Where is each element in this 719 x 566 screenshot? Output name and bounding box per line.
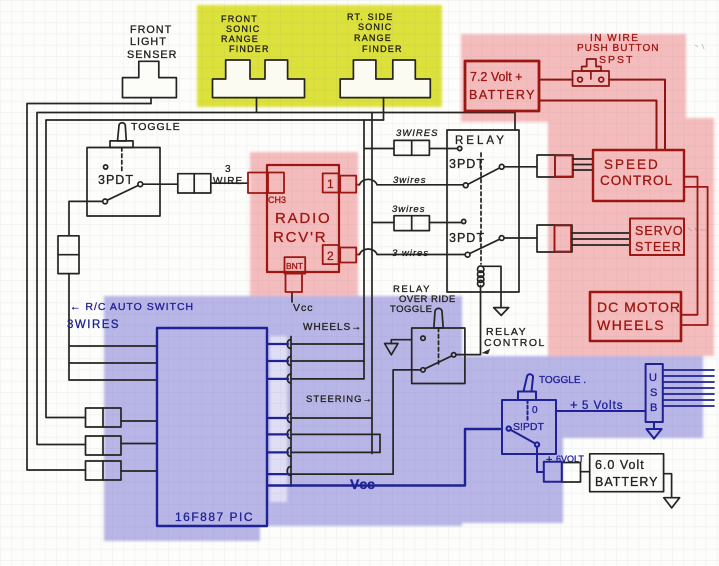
radio out 1 box: [323, 173, 339, 192]
connector box bottom-left 2: [86, 436, 122, 455]
svg-text:Vcc: Vcc: [350, 476, 375, 492]
servo steer box: [630, 219, 684, 256]
svg-text:FRONT: FRONT: [221, 14, 258, 24]
radio BNT box: [285, 257, 306, 274]
ground right of battery: [664, 498, 680, 508]
svg-text:STEER: STEER: [635, 240, 682, 254]
blue labels: [67, 301, 657, 524]
connector red cell (speed): [555, 156, 573, 177]
relay sw1 arm: [468, 168, 499, 184]
svg-text:6VOLT: 6VOLT: [556, 454, 584, 464]
wire 3PDT lower contact to resistor chain: [69, 201, 103, 235]
wire pin7 riser to toggle: [267, 370, 421, 474]
rt side sonic range finder body: [340, 60, 430, 98]
svg-text:FINDER: FINDER: [229, 44, 270, 54]
blue highlight: bottom-left lip: [104, 520, 260, 541]
svg-text:RANGE: RANGE: [354, 33, 392, 43]
7.2 volt battery box: [465, 61, 539, 111]
SPDT to 6V wire connector to battery: [581, 471, 590, 473]
wire sw1 to speed connector: [504, 166, 537, 168]
svg-text:CONTROL: CONTROL: [484, 337, 546, 349]
6V connector box: [544, 462, 562, 482]
svg-text:WIRE: WIRE: [213, 176, 243, 187]
svg-text:Vcc: Vcc: [293, 302, 314, 314]
pink highlight: radio receiver: [250, 152, 358, 296]
push button plunger: [573, 59, 610, 86]
label front sonic range finder: [221, 12, 403, 54]
svg-text:S: S: [650, 387, 657, 399]
svg-text:FINDER: FINDER: [362, 44, 403, 54]
pin loop bumps: [287, 340, 291, 476]
dashed actuator: [438, 328, 440, 364]
relay coil top wire to ground branch: [482, 266, 501, 307]
relay coil: [478, 266, 484, 272]
wire SPDT bottom to 6V connector: [537, 447, 544, 472]
contact right: [452, 353, 456, 357]
connector box bottom-left 1: [86, 408, 122, 427]
relay sw1 contact left: [463, 183, 468, 188]
svg-text:SERVO: SERVO: [635, 224, 684, 238]
resistor (vertical 2-cell): [58, 236, 79, 274]
svg-text:SPST: SPST: [599, 54, 634, 66]
wire sonic1 drop: [256, 98, 258, 113]
switch arm: [107, 186, 138, 201]
contact top-left: [421, 336, 425, 340]
wire push button to speed control: [609, 80, 665, 150]
3 wires connector to servo: [572, 233, 630, 245]
wire toggle to ground: [391, 340, 411, 344]
toggle arm: [425, 356, 451, 369]
wire sonic2 drop: [383, 98, 385, 120]
blue highlight: main PIC area: [104, 296, 462, 526]
ground below relay: [494, 308, 509, 316]
USB ground wire: [653, 422, 655, 429]
wires PIC steering pins: [291, 418, 380, 452]
svg-text:S!PDT: S!PDT: [513, 421, 545, 433]
toggle base: [110, 141, 133, 148]
svg-text:SONIC: SONIC: [226, 24, 261, 34]
toggle switch 3PDT (left) box: [87, 148, 160, 217]
dashed actuator line: [121, 148, 123, 173]
relay sw1 contact right: [499, 164, 504, 169]
contact end circle: [458, 146, 462, 150]
SPDT toggle lever: [524, 374, 534, 391]
svg-text:SONIC: SONIC: [358, 22, 393, 32]
white gap in highlighter right of PIC: [270, 336, 287, 502]
USB cable lines: [663, 370, 714, 406]
relay sw2 contact right: [499, 236, 504, 241]
relay sw2 arm: [470, 239, 499, 253]
toggle lever: [434, 308, 443, 328]
push button terminals: [578, 77, 583, 82]
ground left of toggle: [385, 344, 398, 355]
wires PIC wheels pins: [291, 344, 364, 379]
3wires connector mid 2: [394, 216, 429, 231]
toggle lever: [118, 123, 127, 141]
wire connector to radio: [211, 182, 248, 184]
contact lower left: [103, 199, 108, 204]
3 wires connector to speed control: [573, 159, 593, 170]
wire light sensor drop: [150, 98, 152, 104]
contact end circle: [462, 219, 466, 223]
svg-text:3WIRES: 3WIRES: [396, 128, 438, 139]
svg-text:DC MOTOR: DC MOTOR: [597, 299, 681, 315]
svg-text:TOGGLE: TOGGLE: [390, 304, 432, 315]
svg-text:STEERING→: STEERING→: [306, 394, 373, 405]
red labels: [268, 33, 684, 333]
blue highlight: SPDT / USB band: [453, 356, 563, 458]
relay box: [447, 130, 519, 292]
16F887 PIC box: [157, 328, 267, 526]
SPDT contact bottom: [535, 442, 539, 446]
pin harness vertical: [290, 337, 292, 487]
connector after 3PDT: [178, 174, 211, 193]
pink highlight: speed control / servo / dc motor: [548, 118, 714, 356]
svg-text:3: 3: [225, 164, 232, 175]
Vcc wire: [267, 429, 500, 486]
6.0 volt battery box: [590, 454, 664, 492]
svg-text:PUSH BUTTON: PUSH BUTTON: [577, 43, 660, 54]
svg-text:BATTERY: BATTERY: [595, 475, 659, 489]
svg-text:BNT: BNT: [286, 261, 303, 271]
contact right: [138, 182, 143, 187]
wire bus C (rt sonic): [46, 120, 384, 418]
svg-text:16F887 PIC: 16F887 PIC: [175, 510, 254, 524]
connector at speed control: [537, 155, 573, 177]
dc motor wheels box: [590, 292, 681, 341]
radio out 1 connector: [340, 176, 356, 193]
svg-text:CH3: CH3: [268, 195, 286, 205]
svg-text:RCV'R: RCV'R: [273, 229, 327, 246]
connector box bottom-left 3: [86, 461, 122, 480]
front sonic range finder body: [213, 60, 305, 98]
SPDT toggle box: [502, 400, 556, 454]
svg-text:WHEELS→: WHEELS→: [303, 322, 362, 333]
SPDT toggle base: [518, 392, 536, 401]
svg-text:TOGGLE: TOGGLE: [131, 121, 181, 133]
push button body: [573, 71, 610, 86]
radio out 2 connector: [340, 248, 356, 263]
wire BNT vcc stub: [291, 292, 293, 302]
pink highlight: battery + push button: [461, 34, 686, 122]
SPDT arm: [511, 430, 535, 444]
wire riser to 3wires connector 2: [372, 113, 394, 454]
svg-text:RANGE: RANGE: [221, 34, 259, 44]
wire 3PDT output to connector: [143, 183, 178, 185]
svg-text:3PDT: 3PDT: [98, 173, 134, 187]
wire relay coil to relay control: [456, 286, 481, 355]
svg-text:6.0 Volt: 6.0 Volt: [595, 458, 645, 472]
blue highlight: 6-volt connector area: [455, 455, 563, 523]
svg-text:+: +: [570, 397, 578, 412]
wire resistor down and 3 branches into PIC: [69, 274, 157, 380]
svg-text:RADIO: RADIO: [275, 210, 332, 227]
PIC pin stubs right: [267, 344, 288, 474]
svg-text:7.2 Volt +: 7.2 Volt +: [470, 70, 522, 84]
radio ch3 input connector: [248, 173, 284, 194]
svg-text:3 wires: 3 wires: [392, 248, 429, 259]
svg-text:BATTERY: BATTERY: [469, 88, 536, 102]
yellow highlight: sonic range finders: [197, 5, 442, 107]
wire bus A (light sensor): [27, 104, 151, 471]
wire battery to ground: [664, 474, 672, 498]
svg-text:RELAY: RELAY: [455, 135, 507, 147]
svg-text:← R/C AUTO SWITCH: ← R/C AUTO SWITCH: [70, 301, 194, 313]
wire connector2 to relay: [429, 222, 461, 224]
svg-text:0: 0: [532, 405, 538, 416]
radio receiver box: [267, 165, 339, 272]
svg-text:TOGGLE .: TOGGLE .: [539, 375, 586, 386]
ground below USB: [646, 429, 661, 439]
short riser steering: [379, 434, 381, 452]
SPDT dashed actuator: [527, 400, 529, 421]
wire battery to push button: [539, 80, 665, 150]
svg-text:3PDT: 3PDT: [449, 231, 485, 245]
SPDT contact left: [507, 426, 511, 430]
relay sw2 contact left: [465, 252, 470, 257]
3wires connector mid 1: [394, 140, 429, 155]
svg-text:LIGHT: LIGHT: [130, 36, 167, 48]
wire connector1 to relay: [429, 148, 457, 150]
relay dashed link: [480, 153, 482, 264]
wires speed control to dc motor (inner): [681, 177, 698, 315]
wire sw2 to servo connector: [504, 237, 537, 239]
svg-text:5 Volts: 5 Volts: [582, 400, 624, 412]
wire radio ch2 to relay (with hop): [358, 249, 465, 254]
contact bottom-left: [421, 368, 425, 372]
connector at servo: [537, 225, 572, 252]
svg-text:3wires: 3wires: [392, 204, 425, 215]
speed control box: [593, 150, 684, 201]
wires speed control to dc motor (outer): [681, 187, 708, 325]
svg-text:WHEELS: WHEELS: [597, 317, 665, 333]
svg-text:FRONT: FRONT: [130, 24, 172, 36]
svg-text:B: B: [650, 402, 657, 414]
svg-text:RT. SIDE: RT. SIDE: [347, 12, 393, 22]
svg-text:2: 2: [327, 249, 334, 263]
svg-text:3wires: 3wires: [393, 175, 426, 186]
radio out 2 box: [323, 245, 339, 264]
scan noise marks: [688, 44, 706, 233]
svg-text:U: U: [649, 372, 657, 384]
USB box: [646, 364, 663, 422]
svg-text:3WIRES: 3WIRES: [67, 319, 120, 331]
arrow relay control: [482, 349, 490, 354]
wire riser to 3wires connector 1: [364, 120, 394, 379]
contact o small: [104, 165, 108, 169]
svg-text:CONTROL: CONTROL: [600, 173, 673, 188]
wire bus B (front sonic): [37, 113, 515, 445]
6V connector black cell: [562, 463, 581, 483]
BNT lower box: [286, 274, 303, 292]
svg-text:SENSER: SENSER: [127, 49, 177, 61]
svg-text:3PDT: 3PDT: [449, 157, 485, 171]
wire battery bottom to speed control: [539, 101, 657, 151]
svg-text:+: +: [546, 454, 552, 466]
wires connectors to PIC: [121, 421, 157, 471]
connector red cell (servo): [555, 226, 572, 252]
wire radio ch1 to relay (with hop): [358, 179, 463, 184]
relay over ride toggle box: [412, 328, 465, 384]
front light sensor body: [123, 61, 177, 97]
svg-text:1: 1: [327, 177, 334, 191]
svg-text:SPEED: SPEED: [604, 157, 660, 172]
wire SPDT to USB +5V: [556, 410, 646, 412]
